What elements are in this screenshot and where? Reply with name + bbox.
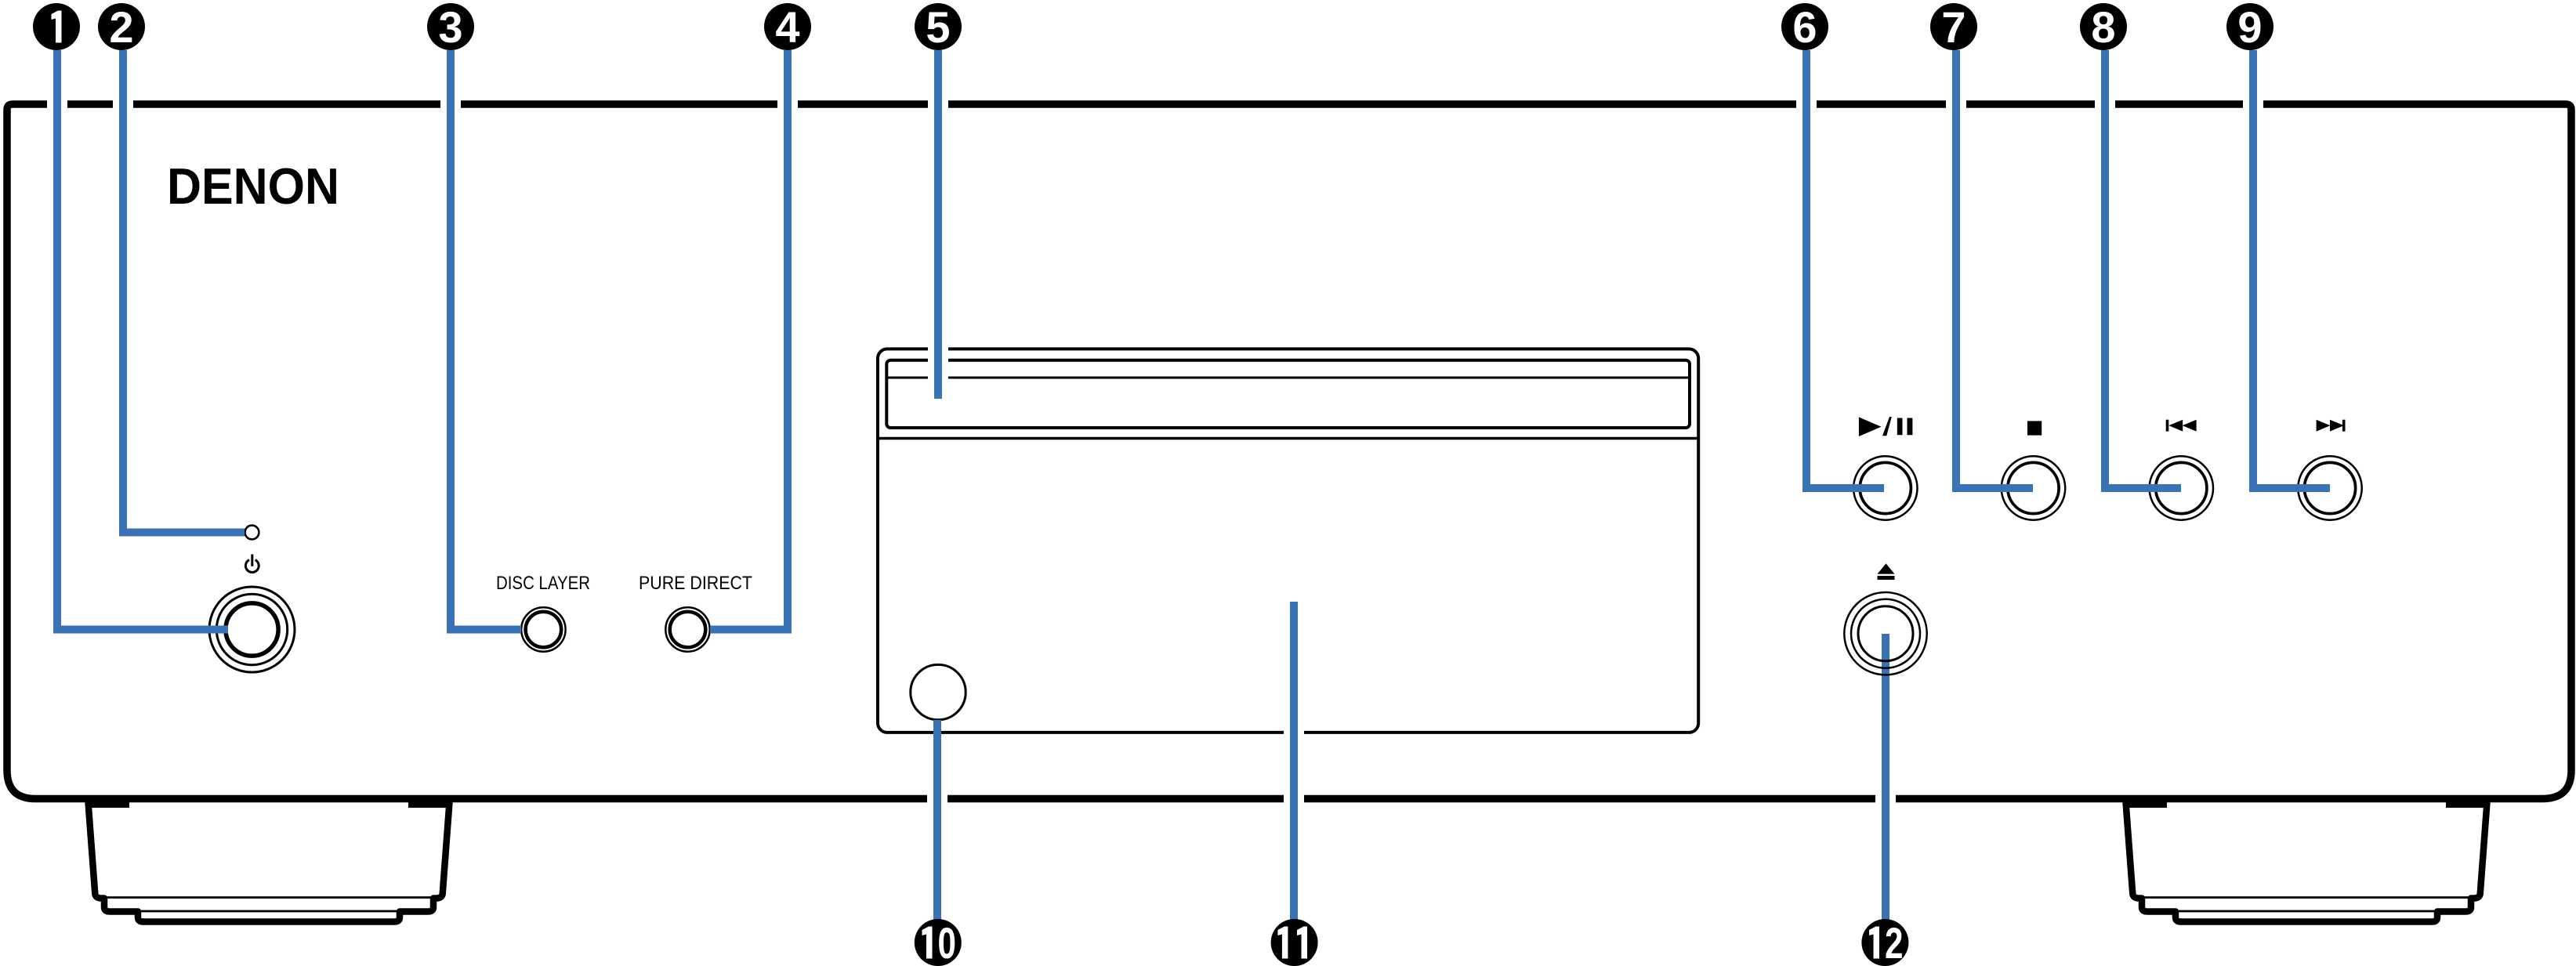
callout 9 [2226, 2, 2273, 52]
leader line 3 [451, 50, 521, 630]
disc slot [886, 360, 1690, 428]
skip back icon [2166, 420, 2197, 432]
power LED (2) [245, 526, 259, 540]
leader line 1 [57, 50, 228, 630]
svg-text:PURE DIRECT: PURE DIRECT [639, 573, 752, 594]
leader line 4 [710, 50, 788, 630]
svg-text:2: 2 [1885, 918, 1904, 966]
svg-text:DISC LAYER: DISC LAYER [496, 573, 590, 594]
svg-text:7: 7 [1941, 2, 1966, 52]
foot mounting tab left foot [86, 801, 451, 808]
eject icon [1878, 563, 1895, 580]
callout 3 [427, 2, 474, 52]
svg-text:0: 0 [938, 918, 957, 966]
white casing gaps on panel bottom border [927, 791, 1896, 807]
skip forward icon [2317, 420, 2346, 432]
white casing gaps on panel top border [47, 96, 2263, 112]
callout 1 [33, 3, 80, 50]
white casing gap for line 5 over slot lines [928, 345, 948, 381]
foot mounting tab right foot [2124, 801, 2489, 808]
leader line 2 [123, 50, 245, 533]
svg-text:3: 3 [438, 2, 462, 52]
right foot [2126, 802, 2487, 922]
callout 5 [915, 2, 962, 52]
svg-text:9: 9 [2237, 2, 2262, 52]
eject button (12) drawn over line [1844, 592, 1926, 675]
play/pause icon [1859, 417, 1913, 436]
power standby symbol [245, 555, 259, 573]
leader line 6 [1806, 50, 1884, 488]
white casing gap for line 11 over display bottom [1284, 728, 1304, 737]
remote sensor (10) [911, 664, 966, 719]
front panel outline [7, 104, 2571, 799]
stop icon [2027, 421, 2042, 435]
skip forward button (9) [2298, 456, 2361, 519]
callout 7 [1930, 2, 1977, 52]
leader line 12 [1882, 634, 1889, 942]
leader line 8 [2105, 50, 2181, 488]
svg-text:5: 5 [926, 2, 950, 52]
svg-text:2: 2 [109, 2, 133, 52]
callout 2 [98, 2, 145, 52]
callout 12 [1861, 918, 1908, 966]
leader line 5 [934, 50, 942, 399]
play/pause button (6) [1853, 456, 1917, 519]
callout 4 [764, 2, 811, 52]
leader line 11 [1290, 602, 1298, 942]
disc tray bezel (5) [878, 349, 1698, 733]
callout 10 [915, 918, 962, 966]
svg-text:8: 8 [2091, 2, 2115, 52]
PURE DIRECT button (4) [665, 607, 709, 651]
left foot [89, 802, 450, 922]
callout 8 [2080, 2, 2127, 52]
svg-text:DENON: DENON [167, 157, 339, 215]
svg-text:4: 4 [775, 2, 799, 52]
leader line 10 [933, 720, 941, 942]
stop button (7) [2002, 456, 2065, 519]
leader line 9 [2253, 50, 2330, 488]
skip back button (8) [2150, 456, 2213, 519]
leader line 7 [1956, 50, 2033, 488]
callout 6 [1781, 2, 1828, 52]
display divider (11 top) [878, 437, 1698, 440]
svg-text:6: 6 [1792, 2, 1817, 52]
power button (1) [209, 587, 295, 672]
disc slot inner line [886, 377, 1690, 379]
callout 11 [1271, 919, 1318, 966]
DISC LAYER button (3) [521, 607, 565, 651]
